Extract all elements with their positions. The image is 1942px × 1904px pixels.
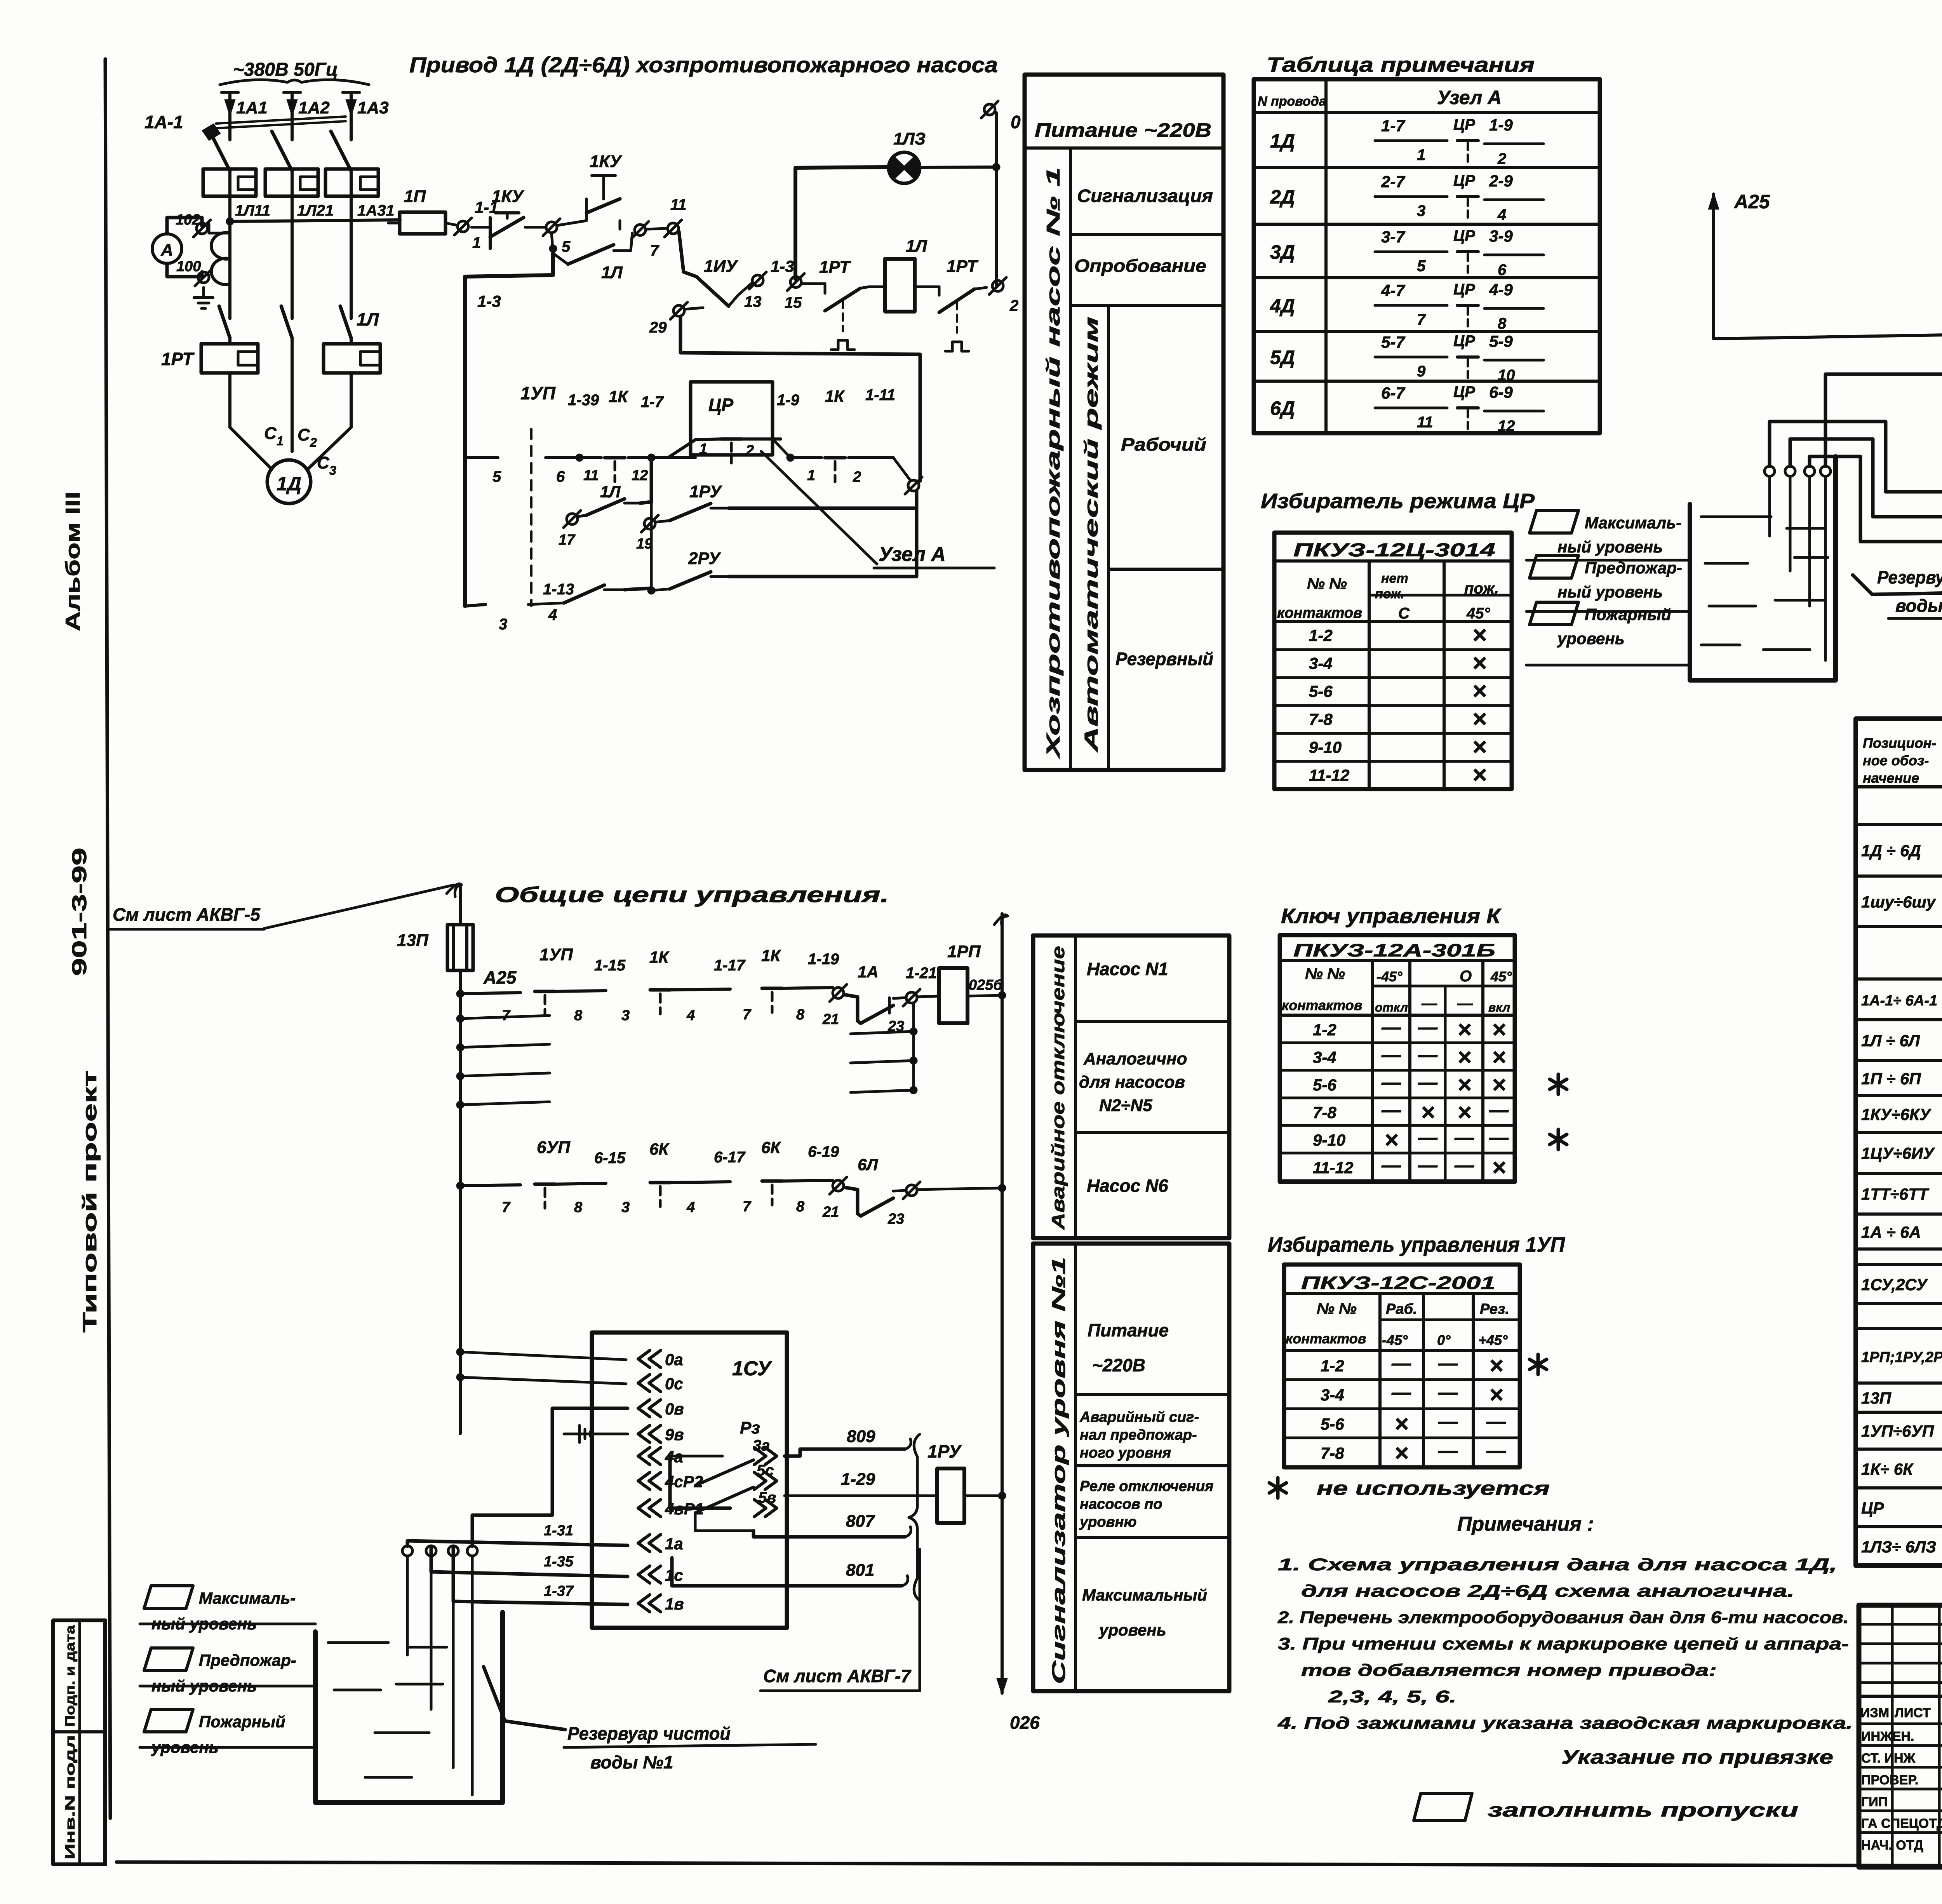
pushbutton 1КУ (start, NO) above xyxy=(558,221,586,225)
svg-text:1РП;1РУ,2РУ: 1РП;1РУ,2РУ xyxy=(1861,1349,1942,1366)
current transformer 1ТТ xyxy=(211,233,230,285)
contact blade 2РУ xyxy=(670,572,711,589)
svg-text:11-12: 11-12 xyxy=(1309,766,1349,784)
svg-text:1РП: 1РП xyxy=(947,942,981,961)
electrode rods tank1 xyxy=(406,1556,409,1655)
arrow net 026 xyxy=(997,1678,1008,1695)
svg-text:4: 4 xyxy=(686,1199,695,1216)
contactor coil 1Л xyxy=(885,259,915,312)
svg-text:1А3: 1А3 xyxy=(357,98,389,117)
svg-text:Аварийное отключение: Аварийное отключение xyxy=(1048,946,1068,1230)
svg-text:ПКУЗ-12Ц-3014: ПКУЗ-12Ц-3014 xyxy=(1293,540,1495,561)
svg-text:6Д: 6Д xyxy=(1270,397,1295,419)
svg-text:—: — xyxy=(1418,1127,1438,1148)
svg-text:12: 12 xyxy=(1498,418,1515,435)
svg-text:Привод 1Д (2Д÷6Д) хозпротивопо: Привод 1Д (2Д÷6Д) хозпротивопожарного на… xyxy=(409,52,998,77)
svg-text:×: × xyxy=(1489,1352,1503,1379)
svg-text:23: 23 xyxy=(887,1211,904,1227)
callout Резервуар чистой воды №1 xyxy=(484,1667,565,1730)
contact 6К #2 xyxy=(762,1179,782,1183)
svg-text:×: × xyxy=(1472,621,1486,649)
svg-text:—: — xyxy=(1391,1381,1411,1403)
svg-text:ное обоз-: ное обоз- xyxy=(1863,753,1929,768)
svg-text:Насос N6: Насос N6 xyxy=(1087,1176,1168,1196)
svg-text:—: — xyxy=(1438,1411,1458,1432)
water dashes tank1 xyxy=(328,1641,388,1644)
svg-text:5-9: 5-9 xyxy=(1489,332,1513,350)
electrode rods tank2 xyxy=(1768,476,1771,536)
level line xyxy=(1526,664,1690,667)
contact ЦР xyxy=(721,437,741,441)
svg-text:7: 7 xyxy=(650,242,660,259)
selector row 5-6 xyxy=(1284,1437,1520,1439)
svg-text:1-15: 1-15 xyxy=(594,957,626,974)
svg-text:3-9: 3-9 xyxy=(1489,227,1513,245)
svg-text:Предпожар-: Предпожар- xyxy=(1585,559,1682,577)
svg-text:1-35: 1-35 xyxy=(544,1554,574,1570)
svg-text:1А ÷ 6А: 1А ÷ 6А xyxy=(1861,1223,1921,1241)
svg-text:1ЛЗ÷ 6ЛЗ: 1ЛЗ÷ 6ЛЗ xyxy=(1861,1538,1936,1556)
svg-text:—: — xyxy=(1486,1411,1506,1432)
svg-text:×: × xyxy=(1472,649,1486,677)
bottom-left stamp boxes xyxy=(53,1620,105,1864)
svg-text:не используется: не используется xyxy=(1317,1477,1550,1499)
contact 6К xyxy=(650,1181,670,1185)
svg-text:3: 3 xyxy=(329,463,336,477)
svg-text:10: 10 xyxy=(1498,367,1515,384)
table: ПКУЗ-12С-2001 xyxy=(1284,1265,1520,1467)
contact blade 1А xyxy=(861,1005,893,1023)
svg-text:1Л: 1Л xyxy=(600,483,621,501)
svg-text:—: — xyxy=(1438,1352,1458,1374)
svg-text:901-3-99: 901-3-99 xyxy=(68,848,91,976)
stub wire right xyxy=(851,1090,914,1092)
svg-text:Альбом III: Альбом III xyxy=(62,491,84,631)
svg-text:СТ. ИНЖ: СТ. ИНЖ xyxy=(1861,1751,1916,1766)
contact 1К #2 xyxy=(825,456,845,460)
input pin 4вР1 1СУ xyxy=(638,1500,661,1517)
svg-text:—: — xyxy=(1457,995,1473,1012)
svg-text:—: — xyxy=(1418,1154,1438,1176)
svg-text:11: 11 xyxy=(1417,414,1433,431)
svg-text:4: 4 xyxy=(686,1007,695,1024)
svg-text:6-19: 6-19 xyxy=(808,1143,839,1160)
svg-text:15: 15 xyxy=(785,294,802,311)
svg-text:×: × xyxy=(1492,1071,1506,1098)
internal loop wire 1СУ xyxy=(670,1456,730,1508)
svg-text:1СУ: 1СУ xyxy=(732,1357,772,1380)
svg-text:1К: 1К xyxy=(609,387,629,406)
output pin 5в 1СУ xyxy=(754,1500,777,1517)
electrode terminal tank1 1 xyxy=(402,1546,412,1556)
svg-text:Избиратель режима ЦР: Избиратель режима ЦР xyxy=(1261,490,1535,513)
svg-text:1-2: 1-2 xyxy=(1309,626,1333,645)
svg-text:—: — xyxy=(1381,1044,1401,1066)
svg-text:1-13: 1-13 xyxy=(543,581,574,598)
output pin 3а xyxy=(754,1448,777,1465)
svg-text:-45°: -45° xyxy=(1376,969,1403,984)
part row 1УП÷6УП xyxy=(1856,1448,1942,1451)
svg-text:1шу÷6шу: 1шу÷6шу xyxy=(1861,893,1937,911)
svg-text:3-4: 3-4 xyxy=(1321,1386,1344,1404)
svg-text:026: 026 xyxy=(1010,1712,1040,1733)
svg-text:ЛИСТ: ЛИСТ xyxy=(1895,1705,1931,1720)
ammeter 1А xyxy=(152,234,182,263)
arrow А25 up xyxy=(1708,192,1719,209)
svg-text:Хозпротивопожарный насос № 1: Хозпротивопожарный насос № 1 xyxy=(1043,167,1064,760)
input pin 0в 1СУ xyxy=(638,1400,661,1417)
svg-text:ЦР: ЦР xyxy=(1861,1499,1885,1517)
svg-text:×: × xyxy=(1489,1381,1503,1408)
level line xyxy=(1526,559,1690,562)
svg-text:1Л11: 1Л11 xyxy=(235,202,270,219)
terminal 23 row1 xyxy=(906,992,917,1003)
svg-text:1РТ: 1РТ xyxy=(819,258,851,277)
feeder arrow 1А3 xyxy=(350,92,353,117)
wire control tap xyxy=(230,220,400,221)
part row 1П ÷ 6П xyxy=(1856,1094,1942,1097)
thermal NC contact 1РТ xyxy=(802,282,825,285)
svg-text:0в: 0в xyxy=(665,1400,684,1418)
svg-text:—: — xyxy=(1381,1099,1401,1121)
electrode terminal 1 xyxy=(1765,466,1775,476)
terminal 17 xyxy=(567,514,578,524)
svg-text:1: 1 xyxy=(699,441,707,457)
selector row 3-4 xyxy=(1284,1408,1520,1410)
svg-text:4: 4 xyxy=(548,606,557,624)
svg-text:Автоматический режим: Автоматический режим xyxy=(1081,317,1102,753)
svg-text:6-9: 6-9 xyxy=(1489,383,1513,401)
svg-text:Опробование: Опробование xyxy=(1074,256,1206,276)
svg-text:45°: 45° xyxy=(1466,605,1490,622)
wire 2-35 xyxy=(1790,439,1942,517)
svg-text:—: — xyxy=(1418,1016,1438,1038)
level regulator unit 1СУ xyxy=(592,1333,787,1628)
aux contact 2РУ row xyxy=(650,522,653,591)
electrode terminal tank1 2 xyxy=(426,1546,436,1556)
input pin 0с 1СУ xyxy=(638,1374,661,1392)
svg-text:Максимальный: Максимальный xyxy=(1082,1586,1207,1604)
svg-text:воды№2: воды№2 xyxy=(1895,596,1942,616)
svg-text:1А31: 1А31 xyxy=(357,202,395,219)
svg-text:1Л: 1Л xyxy=(906,237,927,256)
svg-text:5: 5 xyxy=(1417,258,1426,275)
level checkbox tank1 1 xyxy=(144,1586,193,1608)
part row blank xyxy=(1856,977,1942,981)
electrode terminal tank1 4 xyxy=(467,1546,477,1556)
right rail wire xyxy=(995,113,998,286)
stub wire xyxy=(460,1102,550,1105)
svg-text:уровень: уровень xyxy=(1557,629,1625,648)
svg-text:1-39: 1-39 xyxy=(568,392,599,409)
svg-text:№ №: № № xyxy=(1307,575,1347,592)
stub wire xyxy=(460,1073,550,1076)
terminal 1-11 xyxy=(908,480,919,491)
terminal 5 xyxy=(546,222,557,233)
brace to См лист 1 xyxy=(909,1434,920,1601)
svg-text:См лист АКВГ-5: См лист АКВГ-5 xyxy=(113,904,261,925)
svg-text:контактов: контактов xyxy=(1277,605,1362,621)
svg-text:—: — xyxy=(1489,1127,1509,1148)
thermal NC contact 1РТ #2 xyxy=(915,286,939,288)
svg-text:1Д: 1Д xyxy=(1270,130,1295,152)
svg-text:—: — xyxy=(1438,1440,1458,1462)
svg-text:21: 21 xyxy=(822,1011,839,1028)
svg-text:×: × xyxy=(1394,1440,1408,1467)
svg-text:8: 8 xyxy=(574,1199,583,1216)
part row 1А-1÷ 6А-1 xyxy=(1856,1018,1942,1021)
input pin 4сР2 1СУ xyxy=(638,1472,661,1489)
svg-text:1: 1 xyxy=(1417,146,1425,164)
svg-text:9в: 9в xyxy=(665,1425,684,1444)
contact blade 1Л aux xyxy=(586,499,625,515)
svg-text:—: — xyxy=(1381,1154,1401,1176)
sheet bottom border xyxy=(117,1862,1942,1867)
svg-text:3: 3 xyxy=(499,616,507,633)
svg-text:1П ÷ 6П: 1П ÷ 6П xyxy=(1861,1070,1921,1088)
svg-text:1УП÷6УП: 1УП÷6УП xyxy=(1861,1422,1934,1440)
svg-text:2-7: 2-7 xyxy=(1381,172,1405,191)
svg-text:ГА СПЕЦОТД: ГА СПЕЦОТД xyxy=(1861,1816,1942,1831)
junction 1-9 xyxy=(787,454,794,462)
signature row ПРОВЕР. xyxy=(1859,1788,1942,1791)
svg-text:—: — xyxy=(1421,995,1437,1012)
svg-text:Максималь-: Максималь- xyxy=(1585,514,1681,532)
svg-text:1-29: 1-29 xyxy=(841,1470,875,1489)
svg-text:2Д: 2Д xyxy=(1270,186,1295,208)
svg-text:×: × xyxy=(1472,733,1486,761)
contact blade 1РУ xyxy=(670,503,711,521)
right rail 026 xyxy=(1001,914,1004,1693)
wire phase vertical xyxy=(228,176,231,319)
wire row 1УП xyxy=(456,990,464,998)
contact 1К row1 xyxy=(650,988,670,992)
stub wire xyxy=(460,1044,550,1047)
svg-text:5в: 5в xyxy=(758,1489,776,1506)
feeder arrow 1А1 xyxy=(228,92,231,117)
wire 1-31 xyxy=(407,1541,628,1546)
svg-text:×: × xyxy=(1472,677,1486,705)
svg-text:—: — xyxy=(1418,1071,1438,1093)
svg-text:контактов: контактов xyxy=(1286,1331,1366,1347)
svg-text:Раб.: Раб. xyxy=(1386,1301,1417,1317)
svg-text:11: 11 xyxy=(670,196,687,213)
signature row ГИП xyxy=(1859,1810,1942,1812)
svg-text:8: 8 xyxy=(574,1007,583,1024)
svg-text:4Д: 4Д xyxy=(1270,295,1295,317)
svg-text:1П: 1П xyxy=(404,187,426,206)
svg-text:1Л ÷ 6Л: 1Л ÷ 6Л xyxy=(1861,1031,1920,1050)
row 7-8 xyxy=(1274,732,1512,735)
node row 4Д xyxy=(1254,330,1600,333)
svg-text:7: 7 xyxy=(1417,311,1426,328)
thermal heater 1РТ xyxy=(324,344,380,373)
contact 1РП row xyxy=(465,604,486,606)
contact blade 1РП xyxy=(564,585,604,603)
svg-text:Пожарный: Пожарный xyxy=(1585,605,1671,624)
svg-text:1-2: 1-2 xyxy=(1321,1357,1344,1375)
svg-text:Рабочий: Рабочий xyxy=(1121,434,1206,455)
svg-text:~220В: ~220В xyxy=(1092,1355,1145,1375)
svg-text:1-11: 1-11 xyxy=(865,387,895,404)
sheet border left xyxy=(105,59,110,1818)
svg-text:17: 17 xyxy=(559,532,576,548)
svg-text:~380В 50Гц: ~380В 50Гц xyxy=(233,59,338,80)
svg-text:1ЦУ÷6ИУ: 1ЦУ÷6ИУ xyxy=(1861,1144,1935,1162)
svg-text:6К: 6К xyxy=(649,1140,670,1158)
wire 1-37 xyxy=(453,1546,628,1604)
relay coil 1РУ xyxy=(937,1469,964,1523)
svg-text:Аналогично: Аналогично xyxy=(1083,1049,1187,1068)
svg-text:—: — xyxy=(1418,1044,1438,1066)
svg-text:ПКУЗ-12А-301Б: ПКУЗ-12А-301Б xyxy=(1293,940,1495,960)
svg-text:—: — xyxy=(1454,1154,1474,1176)
svg-text:Позицион-: Позицион- xyxy=(1863,735,1936,751)
terminal 19 xyxy=(644,518,655,529)
contact blade 1Л xyxy=(568,245,614,264)
svg-text:нал предпожар-: нал предпожар- xyxy=(1080,1427,1197,1443)
svg-text:4. Под зажимами указана заво: 4. Под зажимами указана заводская маркир… xyxy=(1277,1714,1853,1733)
svg-text:1: 1 xyxy=(277,434,284,448)
svg-text:1-7: 1-7 xyxy=(641,394,664,411)
svg-text:3. При чтении схемы к марк: 3. При чтении схемы к маркировке цепей и… xyxy=(1278,1634,1849,1653)
ground at CT xyxy=(202,287,205,298)
wire phase vertical xyxy=(291,176,294,319)
part row ЦР xyxy=(1856,1525,1942,1528)
svg-text:2,3, 4, 5, 6.: 2,3, 4, 5, 6. xyxy=(1328,1687,1456,1706)
asterisk xyxy=(1550,1074,1567,1094)
node row 2Д xyxy=(1254,223,1600,226)
svg-text:1-9: 1-9 xyxy=(1489,116,1513,134)
svg-text:1КУ: 1КУ xyxy=(492,187,525,206)
svg-text:-45°: -45° xyxy=(1382,1332,1408,1348)
svg-text:Указание по привязке: Указание по привязке xyxy=(1561,1746,1833,1768)
svg-text:×: × xyxy=(1472,761,1486,789)
svg-text:Типовой проект: Типовой проект xyxy=(79,1070,101,1333)
wire 0в xyxy=(1825,374,1942,466)
wire 807 xyxy=(753,1531,905,1537)
input pin 1а 1СУ xyxy=(638,1535,661,1552)
wire 2-37 xyxy=(1810,456,1942,542)
svg-text:1-3: 1-3 xyxy=(477,292,501,310)
svg-text:Питание: Питание xyxy=(1088,1320,1169,1340)
svg-text:2: 2 xyxy=(1497,150,1506,167)
asterisk xyxy=(1550,1129,1567,1150)
svg-text:Резервный: Резервный xyxy=(1115,649,1213,669)
signature row ИНЖЕН. xyxy=(1859,1744,1942,1747)
svg-text:См лист АКВГ-7: См лист АКВГ-7 xyxy=(763,1666,912,1686)
node row 1Д xyxy=(1254,166,1600,169)
part row 1РП;1РУ,2РУ xyxy=(1856,1381,1942,1385)
wire 1-35 xyxy=(431,1546,628,1577)
svg-text:1А-1: 1А-1 xyxy=(144,112,183,132)
svg-text:6УП: 6УП xyxy=(537,1138,571,1157)
svg-text:7: 7 xyxy=(743,1198,752,1215)
part row 13П xyxy=(1856,1411,1942,1414)
svg-text:вкл: вкл xyxy=(1488,1000,1510,1014)
svg-text:Насос N1: Насос N1 xyxy=(1087,959,1168,979)
part row blank xyxy=(1856,1263,1942,1266)
node row wire xyxy=(465,456,498,459)
svg-text:1РУ: 1РУ xyxy=(689,482,722,501)
signature row СТ. ИНЖ xyxy=(1859,1766,1942,1769)
svg-text:7-8: 7-8 xyxy=(1321,1444,1344,1462)
svg-text:4-9: 4-9 xyxy=(1489,280,1513,299)
А25 feed arrow xyxy=(1712,194,1715,339)
row 3-4 xyxy=(1274,676,1512,679)
svg-text:ЦР: ЦР xyxy=(1453,172,1475,189)
node row 5Д xyxy=(1254,380,1600,383)
svg-text:12: 12 xyxy=(632,467,648,484)
signal lamp 1ЛЗ xyxy=(889,152,920,183)
section: Щит оператора Панель 2 xyxy=(1856,1302,1942,1305)
svg-text:Реле отключения: Реле отключения xyxy=(1080,1478,1213,1495)
motor 1Д xyxy=(267,460,311,503)
svg-text:уровень: уровень xyxy=(1098,1621,1166,1639)
svg-text:1-2: 1-2 xyxy=(1313,1021,1336,1039)
svg-text:8: 8 xyxy=(796,1198,805,1215)
key row 5-6 xyxy=(1280,1097,1515,1099)
svg-text:1КУ÷6КУ: 1КУ÷6КУ xyxy=(1861,1105,1932,1124)
wire 809 xyxy=(785,1449,905,1456)
svg-text:13: 13 xyxy=(744,293,762,310)
asterisk xyxy=(1269,1478,1286,1498)
svg-text:×: × xyxy=(1384,1127,1398,1153)
svg-text:Пожарный: Пожарный xyxy=(199,1712,285,1731)
svg-text:×: × xyxy=(1492,1016,1506,1043)
terminal 13 xyxy=(752,275,763,286)
svg-text:×: × xyxy=(1492,1154,1506,1181)
electrode terminal 2 xyxy=(1785,466,1795,476)
svg-text:0а: 0а xyxy=(665,1350,683,1369)
svg-text:3Д: 3Д xyxy=(1270,241,1295,263)
part row 1А ÷ 6А xyxy=(1856,1247,1942,1251)
wire fuse to terminal xyxy=(445,223,458,225)
level line tank1 xyxy=(140,1623,315,1625)
row 9-10 xyxy=(1274,760,1512,763)
svg-text:1Д ÷ 6Д: 1Д ÷ 6Д xyxy=(1861,841,1921,860)
svg-text:тов добавляется номер приво: тов добавляется номер привода: xyxy=(1301,1661,1717,1680)
svg-text:ПКУЗ-12С-2001: ПКУЗ-12С-2001 xyxy=(1301,1273,1495,1293)
svg-text:N провода: N провода xyxy=(1258,94,1326,109)
svg-text:1К: 1К xyxy=(649,948,670,966)
svg-text:6Л: 6Л xyxy=(858,1155,878,1174)
svg-text:ЦР: ЦР xyxy=(1453,333,1475,350)
wire CT link xyxy=(209,232,230,235)
svg-text:ЦР: ЦР xyxy=(1453,227,1475,244)
input pin 9в 1СУ xyxy=(638,1425,661,1442)
brace under voltage label xyxy=(220,80,369,85)
callout Узел А xyxy=(761,451,877,564)
svg-text:2РУ: 2РУ xyxy=(688,549,721,568)
contact 1К xyxy=(605,456,625,460)
svg-text:1: 1 xyxy=(807,467,815,484)
svg-text:1в: 1в xyxy=(665,1595,684,1613)
svg-text:2. Перечень электрооборудовани: 2. Перечень электрооборудования дан для … xyxy=(1277,1608,1849,1627)
asterisk xyxy=(1530,1354,1547,1374)
svg-text:1УП: 1УП xyxy=(539,945,573,964)
terminal 11 xyxy=(668,223,679,234)
svg-text:5: 5 xyxy=(562,238,571,255)
svg-text:6-7: 6-7 xyxy=(1381,384,1405,402)
svg-text:29: 29 xyxy=(649,319,667,336)
key row 7-8 xyxy=(1280,1124,1515,1127)
svg-text:О: О xyxy=(1460,968,1472,985)
level checkbox 2 xyxy=(1530,556,1578,578)
wire 0с from А25 xyxy=(1714,333,1942,339)
fuse 13П xyxy=(447,925,473,970)
left rail of node row xyxy=(465,253,553,606)
